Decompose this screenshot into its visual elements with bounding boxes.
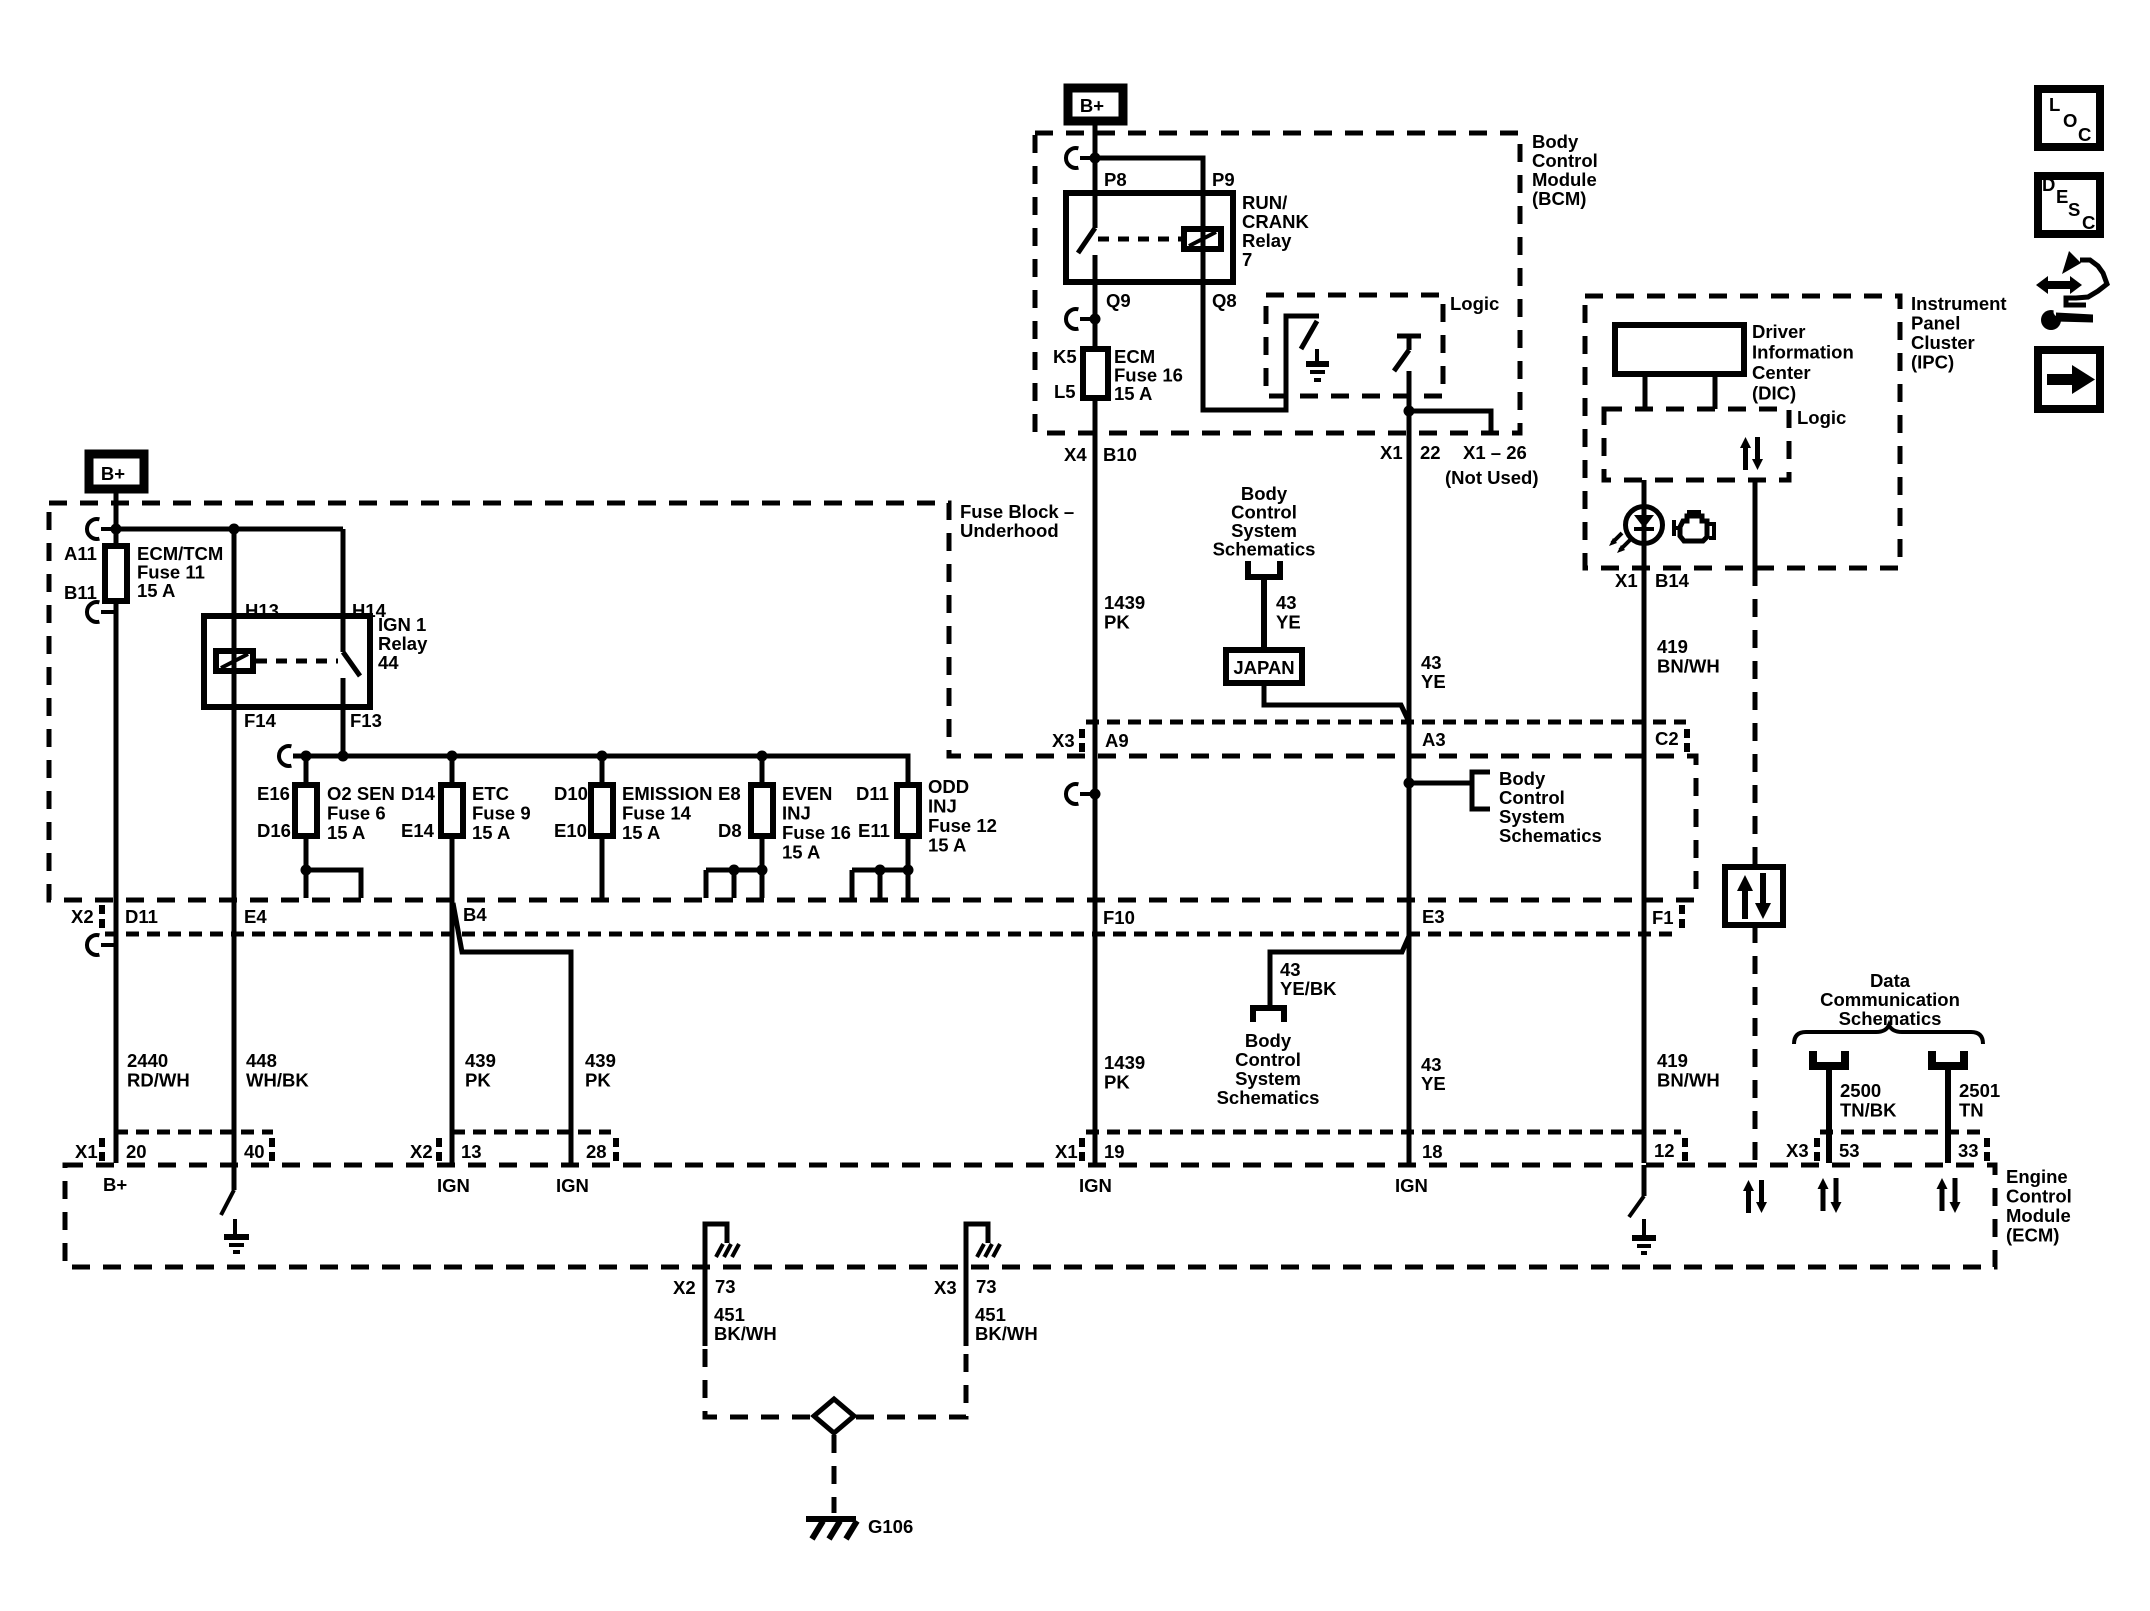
node junction H13 branch	[229, 524, 240, 535]
wire B+ into BCM	[1093, 121, 1098, 193]
svg-text:Information: Information	[1752, 342, 1854, 363]
svg-text:448: 448	[246, 1050, 277, 1071]
wire E3 branch to 43 YE/BK pointer	[1270, 936, 1409, 1008]
ground G106	[806, 1516, 913, 1539]
svg-text:P8: P8	[1104, 169, 1127, 190]
serial data arrows at ECM (data line)	[1743, 1180, 1767, 1213]
svg-text:YE: YE	[1421, 671, 1446, 692]
option box JAPAN	[1226, 650, 1302, 683]
svg-text:7: 7	[1242, 249, 1252, 270]
wire H14 switch leg	[341, 529, 346, 616]
svg-text:B+: B+	[103, 1174, 127, 1195]
IPC dashed outline	[1585, 296, 1900, 568]
svg-text:X4: X4	[1064, 444, 1087, 465]
in-line connector hook below fuse 11	[87, 602, 116, 622]
connector colons A9 row	[1079, 729, 1690, 752]
splice diamond	[814, 1399, 854, 1433]
in-line connector hook at B+ drop	[87, 519, 116, 539]
svg-text:E4: E4	[244, 906, 267, 927]
svg-text:EMISSION: EMISSION	[622, 783, 712, 804]
svg-text:TN: TN	[1959, 1100, 1984, 1121]
svg-text:X2: X2	[71, 906, 94, 927]
wire Q8 to BCM logic	[1203, 282, 1319, 410]
label Instrument Panel Cluster (IPC)	[1911, 293, 2007, 373]
svg-text:15 A: 15 A	[928, 835, 966, 856]
power feed B+ (left)	[89, 454, 144, 489]
svg-text:(ECM): (ECM)	[2006, 1225, 2059, 1246]
svg-text:C2: C2	[1655, 728, 1679, 749]
labels X3 73	[934, 1276, 997, 1298]
svg-text:PK: PK	[465, 1070, 491, 1091]
svg-text:YE/BK: YE/BK	[1280, 978, 1337, 999]
svg-text:E11: E11	[858, 820, 890, 841]
svg-text:1439: 1439	[1104, 1052, 1145, 1073]
svg-text:X1 – 26: X1 – 26	[1463, 442, 1527, 463]
svg-text:INJ: INJ	[928, 796, 957, 817]
fuse block - underhood dashed outline	[49, 503, 1696, 900]
svg-text:Logic: Logic	[1450, 293, 1499, 314]
wire label 2500 TN/BK	[1840, 1080, 1897, 1121]
svg-text:1439: 1439	[1104, 592, 1145, 613]
ECM internal pin function labels	[103, 1174, 1428, 1196]
svg-text:K5: K5	[1053, 346, 1077, 367]
svg-text:Fuse 9: Fuse 9	[472, 803, 531, 824]
svg-text:C: C	[2082, 212, 2095, 233]
svg-text:33: 33	[1958, 1140, 1979, 1161]
wire H13 coil leg down to pin 40	[232, 529, 237, 1163]
svg-text:451: 451	[714, 1304, 745, 1325]
dashed ground run right	[856, 1349, 966, 1417]
svg-text:B11: B11	[64, 582, 97, 603]
wire DIC right leg	[1713, 374, 1718, 409]
relay IGN1 coil	[216, 651, 253, 671]
svg-text:WH/BK: WH/BK	[246, 1070, 309, 1091]
node junction B+ / P9 branch	[1090, 153, 1101, 164]
ECM internal ground (pin 12)	[1629, 1165, 1656, 1253]
svg-text:2440: 2440	[127, 1050, 168, 1071]
wire JAPAN to A3	[1264, 683, 1409, 722]
wire EVEN INJ fork to block pins	[706, 836, 768, 898]
wire label 439 PK (pin13)	[465, 1050, 496, 1091]
svg-text:Panel: Panel	[1911, 313, 1960, 334]
svg-text:A9: A9	[1105, 730, 1129, 751]
wire label 2440 RD/WH	[127, 1050, 190, 1091]
svg-text:A11: A11	[64, 543, 97, 564]
wire label 43 YE (A3 column)	[1421, 652, 1446, 692]
svg-text:TN/BK: TN/BK	[1840, 1100, 1897, 1121]
fuse O2 SEN Fuse 6 15A	[257, 756, 395, 843]
svg-text:F14: F14	[244, 710, 277, 731]
svg-text:419: 419	[1657, 636, 1688, 657]
wire B4 main (439 PK to pin 13)	[450, 836, 455, 1163]
svg-text:15 A: 15 A	[622, 822, 660, 843]
wire label 1439 PK (upper)	[1104, 592, 1145, 633]
svg-text:X1: X1	[1615, 570, 1638, 591]
svg-text:40: 40	[244, 1141, 265, 1162]
svg-text:44: 44	[378, 652, 399, 673]
svg-text:Center: Center	[1752, 362, 1811, 383]
label Driver Information Center (DIC)	[1752, 321, 1854, 404]
svg-text:D11: D11	[856, 783, 889, 804]
svg-text:JAPAN: JAPAN	[1233, 657, 1294, 678]
svg-text:Schematics: Schematics	[1217, 1087, 1320, 1108]
svg-text:Fuse 12: Fuse 12	[928, 815, 997, 836]
wire stub X1-26 not used	[1409, 411, 1491, 431]
svg-text:X2: X2	[673, 1277, 696, 1298]
fuse EVEN INJ Fuse 16 15A	[718, 756, 851, 863]
wire 2501 TN	[1945, 1066, 1951, 1163]
svg-text:Fuse Block –: Fuse Block –	[960, 501, 1074, 522]
svg-text:419: 419	[1657, 1050, 1688, 1071]
svg-text:B14: B14	[1655, 570, 1690, 591]
labels X2 73	[673, 1276, 736, 1298]
bracket pointer (middle box)	[1472, 772, 1490, 809]
svg-text:B4: B4	[463, 904, 487, 925]
svg-text:Module: Module	[2006, 1205, 2071, 1226]
svg-text:F10: F10	[1103, 907, 1135, 928]
relay RUN/CRANK coil-switch dashed link	[1098, 237, 1183, 242]
wire DIC left leg	[1643, 374, 1648, 409]
svg-text:53: 53	[1839, 1140, 1860, 1161]
icon DESC button	[2038, 174, 2100, 234]
node junction at B+ / H13 branch	[111, 524, 122, 535]
svg-text:22: 22	[1420, 442, 1441, 463]
ECM case ground stub (right, pin X3-73)	[966, 1224, 1000, 1267]
svg-text:439: 439	[585, 1050, 616, 1071]
svg-text:X2: X2	[410, 1141, 433, 1162]
wire ODD INJ fork to block pins	[852, 836, 914, 898]
svg-text:15 A: 15 A	[137, 580, 175, 601]
serial data bidirectional box	[1725, 867, 1783, 925]
svg-text:Schematics: Schematics	[1213, 539, 1316, 560]
svg-text:L5: L5	[1054, 381, 1076, 402]
svg-text:H14: H14	[352, 600, 387, 621]
wire EMISSION fuse to block edge	[600, 836, 605, 898]
terminal 2500	[1809, 1051, 1849, 1069]
wire label 1439 PK (lower)	[1104, 1052, 1145, 1093]
svg-text:Control: Control	[1499, 787, 1565, 808]
wire logic to MIL LED	[1642, 480, 1647, 568]
brace data communication	[1794, 1025, 1983, 1044]
wire B4 branch (439 PK to pin 28)	[453, 903, 571, 1163]
svg-text:15 A: 15 A	[472, 822, 510, 843]
wire bracket to JAPAN box	[1261, 577, 1267, 650]
power feed B+ (top, BCM)	[1068, 88, 1123, 121]
svg-text:D: D	[2042, 174, 2055, 195]
off-page reference Body Control System Schematics (middle right)	[1499, 768, 1602, 846]
wire label 451 BK/WH (left)	[714, 1304, 777, 1344]
svg-text:15 A: 15 A	[782, 842, 820, 863]
svg-text:X3: X3	[934, 1277, 957, 1298]
svg-text:Fuse 6: Fuse 6	[327, 803, 386, 824]
svg-text:19: 19	[1104, 1141, 1125, 1162]
BCM dashed outline	[1035, 133, 1520, 433]
in-line connector hook at D11/X1 row	[87, 935, 116, 955]
svg-text:D8: D8	[718, 820, 742, 841]
svg-text:15 A: 15 A	[327, 822, 365, 843]
svg-text:Cluster: Cluster	[1911, 332, 1975, 353]
fuse ODD INJ Fuse 12 15A	[856, 776, 997, 856]
svg-text:E3: E3	[1422, 906, 1445, 927]
svg-text:RD/WH: RD/WH	[127, 1070, 190, 1091]
svg-text:D10: D10	[554, 783, 588, 804]
svg-text:D14: D14	[401, 783, 436, 804]
svg-text:Driver: Driver	[1752, 321, 1805, 342]
svg-text:S: S	[2068, 199, 2080, 220]
svg-text:PK: PK	[585, 1070, 611, 1091]
wire 451 BK/WH right	[964, 1267, 969, 1346]
svg-text:Logic: Logic	[1797, 407, 1846, 428]
svg-text:(IPC): (IPC)	[1911, 352, 1954, 373]
svg-text:Control: Control	[1235, 1049, 1301, 1070]
wire label 2501 TN	[1959, 1080, 2000, 1121]
svg-text:L: L	[2049, 94, 2060, 115]
serial data arrows at ECM (pin 33)	[1937, 1178, 1961, 1213]
svg-text:YE: YE	[1421, 1073, 1446, 1094]
fuse EMISSION Fuse 14 15A	[554, 756, 712, 843]
node junction bus taps	[301, 751, 312, 762]
fuse bus horizontal	[293, 756, 908, 785]
wire label 43 YE (lower)	[1421, 1054, 1446, 1094]
svg-text:Body: Body	[1532, 131, 1579, 152]
svg-text:RUN/: RUN/	[1242, 192, 1287, 213]
fuse ETC Fuse 9 15A	[401, 756, 531, 843]
wire B+ to ECM/TCM fuse	[114, 491, 119, 546]
serial data arrows at ECM (pin 53)	[1818, 1178, 1842, 1213]
in-line connector hook at BCM B+ entry	[1066, 148, 1095, 168]
svg-text:451: 451	[975, 1304, 1006, 1325]
svg-text:System: System	[1235, 1068, 1301, 1089]
svg-text:E8: E8	[718, 783, 741, 804]
svg-text:43: 43	[1276, 592, 1297, 613]
wire label 419 BN/WH (lower)	[1657, 1050, 1720, 1091]
svg-text:Engine: Engine	[2006, 1166, 2068, 1187]
relay RUN/CRANK coil	[1184, 193, 1221, 282]
wire 419 BN/WH down to ECM pin 12	[1642, 568, 1647, 1163]
IPC pin labels X1 B14	[1615, 570, 1690, 591]
label Engine Control Module (ECM)	[2006, 1166, 2072, 1246]
wire B+ bus to IGN1 relay	[116, 527, 343, 532]
wire O2 fuse fork to block pins	[301, 836, 362, 898]
wire A3 to bracket pointer	[1409, 781, 1472, 786]
BCM lower connector fine dashed row y722	[1086, 720, 1686, 725]
node junction A3 to schematics pointer	[1404, 778, 1415, 789]
svg-text:IGN: IGN	[437, 1175, 470, 1196]
ECM box dashed outline	[65, 1165, 1995, 1267]
svg-text:BN/WH: BN/WH	[1657, 1070, 1720, 1091]
svg-text:D11: D11	[125, 906, 158, 927]
svg-text:(DIC): (DIC)	[1752, 383, 1796, 404]
svg-text:IGN: IGN	[556, 1175, 589, 1196]
svg-text:73: 73	[976, 1276, 997, 1297]
svg-text:(Not Used): (Not Used)	[1445, 467, 1539, 488]
svg-text:X1: X1	[1380, 442, 1403, 463]
svg-text:P9: P9	[1212, 169, 1235, 190]
terminal 2501	[1928, 1051, 1968, 1069]
svg-text:BK/WH: BK/WH	[714, 1323, 777, 1344]
BCM logic dashed box	[1266, 295, 1443, 396]
svg-text:ODD: ODD	[928, 776, 969, 797]
svg-text:Instrument: Instrument	[1911, 293, 2007, 314]
svg-text:System: System	[1499, 806, 1565, 827]
svg-text:Data: Data	[1870, 970, 1911, 991]
indicator LED (MIL)	[1609, 507, 1663, 554]
wire F13 to fuse bus	[341, 707, 346, 756]
label Fuse Block - Underhood	[960, 501, 1074, 541]
ECM connector fine dashed segments	[115, 1130, 1981, 1135]
connector colons ECM row	[99, 1138, 1990, 1161]
svg-text:Q9: Q9	[1106, 290, 1131, 311]
svg-text:E16: E16	[257, 783, 290, 804]
in-line connector hook below Q9	[1066, 309, 1095, 329]
wire Q9 to ECM fuse 16	[1093, 282, 1098, 349]
svg-text:B+: B+	[101, 463, 125, 484]
svg-text:EVEN: EVEN	[782, 783, 832, 804]
svg-text:43: 43	[1421, 652, 1442, 673]
off-page reference Body Control System Schematics (top)	[1213, 483, 1316, 560]
serial data line (IPC to ECM)	[1753, 480, 1758, 1163]
svg-text:E: E	[2056, 186, 2068, 207]
svg-text:PK: PK	[1104, 1072, 1130, 1093]
svg-text:Q8: Q8	[1212, 290, 1237, 311]
svg-text:73: 73	[715, 1276, 736, 1297]
svg-text:12: 12	[1654, 1140, 1675, 1161]
node junction below Q9	[1090, 314, 1101, 325]
wire label 439 PK (pin28)	[585, 1050, 616, 1091]
svg-text:B10: B10	[1103, 444, 1137, 465]
module DIC box	[1615, 325, 1744, 374]
svg-text:Body: Body	[1499, 768, 1546, 789]
wire to relay coil P9	[1095, 158, 1203, 193]
connector colon X2 row	[99, 905, 1685, 928]
svg-text:D16: D16	[257, 820, 291, 841]
svg-text:B+: B+	[1080, 95, 1104, 116]
wire 43 YE X1-22 down to ECM pin 18	[1407, 411, 1412, 1163]
svg-text:Relay: Relay	[1242, 230, 1292, 251]
svg-text:20: 20	[126, 1141, 147, 1162]
relay IGN1 coil-switch dashed link	[256, 659, 338, 664]
svg-text:F13: F13	[350, 710, 382, 731]
svg-text:PK: PK	[1104, 612, 1130, 633]
svg-text:IGN: IGN	[1395, 1175, 1428, 1196]
BCM connector pin labels X4 B10 X1 22	[1064, 442, 1539, 488]
wire fuse11 down to pin 20	[114, 601, 119, 1163]
wire 451 BK/WH left	[703, 1267, 708, 1346]
ECM internal ground (pin 40)	[221, 1165, 249, 1252]
relay IGN1 switch	[343, 616, 360, 707]
svg-text:15 A: 15 A	[1114, 383, 1152, 404]
svg-text:18: 18	[1422, 1141, 1443, 1162]
connector row fine dashed line y934	[105, 932, 1680, 937]
svg-text:E14: E14	[401, 820, 435, 841]
fuse ECM/TCM Fuse 11 15A	[64, 543, 223, 603]
svg-text:43: 43	[1280, 959, 1301, 980]
svg-text:Control: Control	[1532, 150, 1598, 171]
svg-text:E10: E10	[554, 820, 587, 841]
svg-text:Body: Body	[1245, 1030, 1292, 1051]
svg-text:BK/WH: BK/WH	[975, 1323, 1038, 1344]
serial data arrows (IPC logic)	[1740, 437, 1763, 470]
connector row X2 labels (fuse block bottom)	[71, 904, 1674, 928]
icon forward arrow button	[2038, 350, 2100, 409]
bracket below reference text	[1245, 561, 1283, 577]
svg-text:Underhood: Underhood	[960, 520, 1059, 541]
IPC logic dashed box	[1604, 409, 1789, 480]
svg-text:G106: G106	[868, 1516, 913, 1537]
svg-text:IGN: IGN	[1079, 1175, 1112, 1196]
ECM case ground stub (left, pin X2-73)	[705, 1224, 739, 1267]
connector labels X3 A9 A3 C2	[1052, 728, 1679, 751]
svg-text:Fuse 14: Fuse 14	[622, 803, 692, 824]
svg-text:43: 43	[1421, 1054, 1442, 1075]
bracket above reference text (lower)	[1250, 1008, 1287, 1022]
wire label 448 WH/BK	[246, 1050, 309, 1091]
icon LOC button	[2038, 89, 2100, 147]
ECM pin labels row	[75, 1140, 1979, 1162]
relay RUN/CRANK Relay 7 box	[1066, 169, 1309, 311]
svg-text:X1: X1	[75, 1141, 98, 1162]
fuse ECM Fuse 16 15A (BCM)	[1053, 346, 1183, 404]
icon vehicle/wrench	[2036, 251, 2107, 330]
svg-text:A3: A3	[1422, 729, 1446, 750]
svg-text:Relay: Relay	[378, 633, 428, 654]
svg-text:H13: H13	[245, 600, 279, 621]
svg-text:2501: 2501	[1959, 1080, 2000, 1101]
off-page reference Body Control System Schematics (bottom)	[1217, 1030, 1320, 1108]
wire label 419 BN/WH (upper)	[1657, 636, 1720, 677]
svg-text:Fuse 16: Fuse 16	[782, 822, 851, 843]
label Data Communication Schematics	[1820, 970, 1960, 1029]
svg-text:O2 SEN: O2 SEN	[327, 783, 395, 804]
svg-text:439: 439	[465, 1050, 496, 1071]
svg-text:28: 28	[586, 1141, 607, 1162]
svg-text:Communication: Communication	[1820, 989, 1960, 1010]
wire 2500 TN/BK	[1826, 1066, 1832, 1163]
svg-text:Schematics: Schematics	[1499, 825, 1602, 846]
svg-text:2500: 2500	[1840, 1080, 1881, 1101]
svg-text:Module: Module	[1532, 169, 1597, 190]
svg-text:ETC: ETC	[472, 783, 509, 804]
svg-text:Control: Control	[2006, 1186, 2072, 1207]
svg-text:C: C	[2078, 124, 2091, 145]
in-line connector hook at bus left end	[279, 746, 291, 766]
BCM logic output switch	[1394, 336, 1421, 411]
engine icon	[1674, 512, 1714, 541]
dashed ground run left	[705, 1349, 812, 1417]
BCM logic switch to ground	[1301, 321, 1329, 380]
relay RUN/CRANK switch	[1078, 193, 1095, 282]
wire label 43 YE/BK	[1280, 959, 1337, 999]
svg-text:O: O	[2063, 110, 2077, 131]
wire label 43 YE (JAPAN branch)	[1276, 592, 1301, 633]
svg-text:X3: X3	[1786, 1140, 1809, 1161]
relay IGN 1 Relay 44 box	[204, 600, 428, 731]
dashed drop to G106	[832, 1435, 837, 1513]
svg-text:13: 13	[461, 1141, 482, 1162]
svg-text:X3: X3	[1052, 730, 1075, 751]
svg-text:(BCM): (BCM)	[1532, 188, 1586, 209]
svg-text:F1: F1	[1652, 907, 1674, 928]
label Body Control Module (BCM)	[1532, 131, 1598, 209]
svg-text:X1: X1	[1055, 1141, 1078, 1162]
wire label 451 BK/WH (right)	[975, 1304, 1038, 1344]
svg-text:YE: YE	[1276, 612, 1301, 633]
svg-text:BN/WH: BN/WH	[1657, 656, 1720, 677]
svg-text:CRANK: CRANK	[1242, 211, 1309, 232]
in-line connector hook below A9	[1066, 784, 1101, 804]
wire 1439 PK B10 down to ECM pin 19	[1093, 398, 1098, 1163]
svg-text:INJ: INJ	[782, 803, 811, 824]
